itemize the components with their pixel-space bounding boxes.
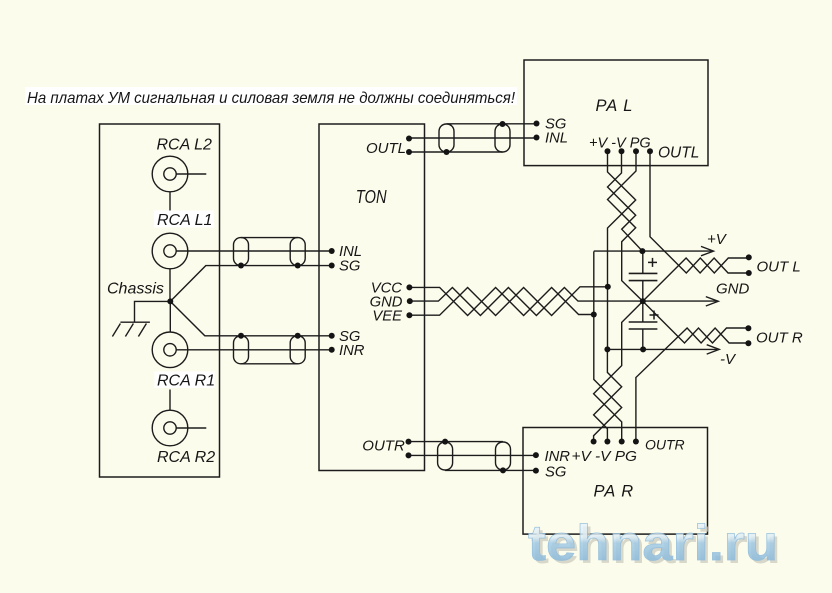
wire RCA L1 to chassis junction bbox=[169, 269, 171, 302]
wire TON OUTR shield top line bbox=[409, 441, 504, 443]
wire chassis junction to ground bbox=[135, 301, 171, 322]
svg-text:OUTL: OUTL bbox=[366, 140, 406, 157]
svg-text:OUTR: OUTR bbox=[645, 437, 685, 453]
svg-text:VEE: VEE bbox=[372, 308, 402, 324]
wire RCA L2 to RCA L1 bbox=[169, 192, 171, 212]
node D5 bbox=[604, 346, 610, 352]
node chassis junction bbox=[167, 298, 173, 304]
svg-text:RCA R1: RCA R1 bbox=[157, 373, 215, 390]
wire shield chassis to TON SG upper bbox=[170, 266, 331, 302]
svg-text:SG: SG bbox=[545, 465, 566, 481]
svg-text:+V -V PG: +V -V PG bbox=[572, 449, 638, 465]
box PA R bbox=[523, 428, 708, 535]
node PA L SG INL pins bbox=[534, 121, 540, 127]
arrow GND bbox=[706, 297, 719, 306]
capacitor C1 top lead bbox=[642, 251, 644, 273]
connector RCA R2 bbox=[152, 410, 206, 446]
braid PA R wire PG from D3 bbox=[594, 301, 643, 441]
svg-text:На платах УМ сигнальная и сило: На платах УМ сигнальная и силовая земля … bbox=[27, 90, 516, 107]
wire +V vertical distribution x594 bbox=[594, 251, 622, 441]
node OUT R terminals bbox=[745, 325, 751, 331]
label halo backgrounds bbox=[25, 87, 517, 388]
shield top line cable CL bbox=[241, 237, 298, 239]
wire TON OUTR conductor to PA R INR bbox=[409, 454, 536, 456]
capacitor C2 bottom lead bbox=[642, 329, 644, 349]
wire TON OUTL conductor to PA L INL bbox=[409, 137, 537, 139]
svg-text:INR: INR bbox=[339, 343, 365, 359]
arrow -V bbox=[707, 345, 720, 354]
svg-text:RCA L1: RCA L1 bbox=[157, 212, 212, 229]
node D1 bbox=[639, 248, 645, 254]
node PA R top pins bbox=[591, 439, 597, 445]
capacitor C2 plus sign bbox=[650, 311, 659, 320]
twisted supply wire GND from TON through node D3 to GND arrow bbox=[410, 288, 716, 316]
braid PA L wire PG to node D3 bbox=[608, 151, 643, 301]
node PA R INR SG pins bbox=[533, 452, 539, 458]
svg-text:OUTL: OUTL bbox=[658, 145, 699, 162]
node TON SG INR pins bbox=[329, 333, 335, 339]
wire L1 signal conductor to TON INL bbox=[176, 250, 332, 252]
connector RCA L1 bbox=[152, 233, 188, 269]
svg-text:RCA R2: RCA R2 bbox=[157, 449, 215, 466]
node cable TL shield taps bbox=[444, 149, 450, 155]
wire PA R OUTR up and twisted to OUT R plus bbox=[636, 328, 747, 442]
svg-text:OUTR: OUTR bbox=[362, 438, 405, 455]
twisted supply wire VCC from TON to node D4 bbox=[409, 287, 593, 315]
connector RCA R1 bbox=[152, 332, 188, 368]
shielded cable TL ellipse 1 bbox=[439, 124, 454, 152]
chassis panel box bbox=[100, 124, 220, 477]
svg-text:OUT R: OUT R bbox=[756, 330, 803, 347]
capacitor C1 plus sign bbox=[648, 258, 657, 267]
node TON OUTL pins bbox=[406, 136, 412, 142]
svg-text:OUT L: OUT L bbox=[757, 259, 801, 276]
connection dots bbox=[167, 121, 752, 474]
shielded cable CR ellipse 1 bbox=[234, 336, 249, 364]
wire R1 signal conductor to TON INR bbox=[176, 349, 332, 351]
svg-text:RCA L2: RCA L2 bbox=[157, 137, 213, 154]
node PA L bottom pins bbox=[605, 148, 611, 154]
svg-text:PA L: PA L bbox=[596, 97, 634, 115]
box TON bbox=[319, 124, 425, 471]
wire GND twisted to OUT R minus bbox=[643, 301, 747, 343]
connector RCA L2 bbox=[152, 156, 206, 192]
wire GND twisted to OUT L minus bbox=[643, 258, 747, 301]
svg-text:SG: SG bbox=[339, 259, 360, 275]
svg-text:INL: INL bbox=[545, 131, 568, 147]
shield top line to PA L SG bbox=[447, 123, 537, 125]
wire +V rail bbox=[594, 250, 712, 252]
capacitor C1 plates bbox=[629, 273, 658, 280]
node OUT L terminals bbox=[746, 254, 752, 260]
node cable CL shield taps bbox=[238, 263, 244, 269]
shielded cable CL ellipse 1 bbox=[234, 238, 249, 266]
wire PA L OUTL down and twisted to OUT L plus bbox=[650, 151, 747, 273]
shielded cable CR ellipse 2 bbox=[290, 336, 305, 364]
node D2 bbox=[605, 284, 611, 290]
svg-text:PA R: PA R bbox=[594, 483, 635, 501]
node TON VCC GND VEE pins bbox=[406, 284, 412, 290]
braid PA L wire +V to node D1 bbox=[608, 151, 643, 251]
capacitor C2 plates bbox=[629, 322, 658, 329]
svg-text:INR: INR bbox=[545, 449, 571, 465]
shielded cable CL ellipse 2 bbox=[290, 238, 305, 266]
capacitor C1 bottom lead bbox=[642, 281, 644, 302]
ground chassis symbol bbox=[112, 322, 149, 336]
twisted supply wire VEE from TON to node D2 bbox=[409, 287, 607, 316]
node D4 bbox=[591, 312, 597, 318]
svg-text:TON: TON bbox=[356, 186, 387, 207]
braid PA L wire -V (pin +V to D2 D5 vertical) bbox=[608, 151, 636, 349]
node TON INL SG pins bbox=[329, 248, 335, 254]
wire -V rail bbox=[607, 348, 717, 350]
wire RCA R1 to RCA R2 bbox=[169, 390, 171, 411]
wire chassis junction to RCA R1 bbox=[169, 301, 171, 332]
node cable BR shield taps bbox=[442, 439, 448, 445]
svg-text:+V: +V bbox=[707, 231, 728, 248]
box PA L bbox=[524, 60, 708, 166]
capacitor C2 top lead bbox=[642, 301, 644, 322]
shielded cable BR ellipse 1 bbox=[438, 442, 453, 470]
arrow +V bbox=[701, 246, 714, 255]
node D6 bbox=[640, 346, 646, 352]
svg-text:-V: -V bbox=[720, 351, 737, 368]
node cable CR shield taps bbox=[238, 333, 244, 339]
braid PA R wire -V from D5 bbox=[594, 349, 622, 441]
shielded cable TL ellipse 2 bbox=[495, 124, 510, 152]
wire shield chassis to TON SG lower bbox=[170, 301, 331, 335]
node D3 bbox=[640, 298, 646, 304]
shielded cable BR ellipse 2 bbox=[496, 442, 511, 470]
node TON OUTR pins bbox=[406, 439, 412, 445]
svg-text:tehnari.ru: tehnari.ru bbox=[528, 515, 778, 571]
shield bottom line to PA R SG bbox=[445, 469, 536, 471]
wire TON OUTL shield to cable top bbox=[409, 151, 503, 153]
svg-text:Chassis: Chassis bbox=[107, 281, 164, 298]
svg-text:GND: GND bbox=[716, 281, 750, 298]
shield bottom line cable CR bbox=[241, 363, 298, 365]
